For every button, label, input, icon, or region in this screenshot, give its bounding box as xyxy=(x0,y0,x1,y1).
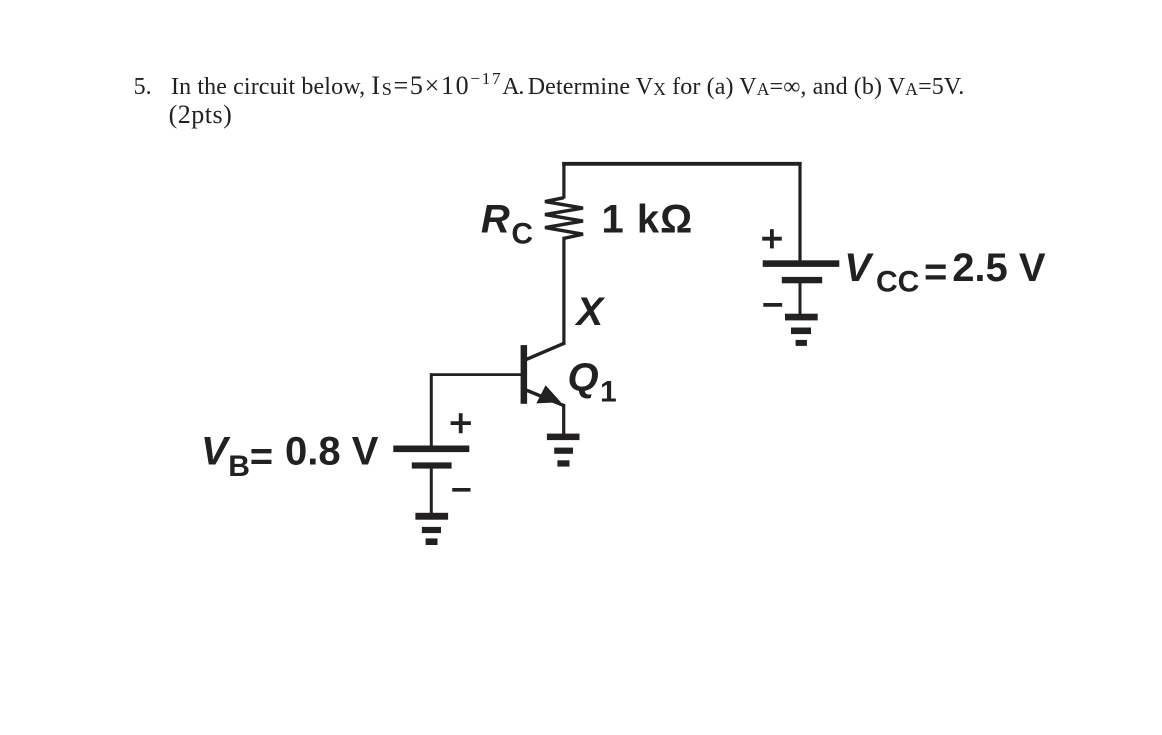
transistor Q1 emitter diagonal xyxy=(526,390,565,406)
svg-text:C: C xyxy=(511,217,533,250)
wire: Vcc top lead xyxy=(798,162,801,261)
battery VB long plate xyxy=(393,446,469,453)
svg-text:2.5 V: 2.5 V xyxy=(952,246,1046,290)
ground symbol below Vcc xyxy=(785,314,818,321)
transistor Q1 emitter arrow xyxy=(536,385,561,403)
svg-text:B: B xyxy=(228,450,250,483)
plus sign of Vcc battery xyxy=(762,237,782,241)
svg-text:1 kΩ: 1 kΩ xyxy=(602,198,694,242)
plus sign of VB battery xyxy=(451,421,471,425)
svg-text:R: R xyxy=(481,198,510,242)
wire: resistor bottom to collector node X xyxy=(562,237,565,344)
wire: VB battery bottom lead xyxy=(430,468,433,514)
wire: VB battery top lead xyxy=(430,373,433,446)
svg-text:X: X xyxy=(575,290,606,334)
wire: resistor top lead xyxy=(562,162,565,199)
transistor Q1 base bar xyxy=(521,345,528,404)
svg-text:V: V xyxy=(201,429,231,473)
wire: top rail xyxy=(562,162,801,166)
svg-text:1: 1 xyxy=(600,376,617,409)
minus sign of VB battery xyxy=(452,488,470,492)
ground symbol at emitter xyxy=(547,434,580,441)
wire: emitter lead down to ground xyxy=(562,404,565,435)
minus sign of Vcc battery xyxy=(763,303,782,307)
battery VB short plate xyxy=(412,462,452,468)
wire: Vcc battery bottom lead xyxy=(799,283,802,315)
svg-text:=: = xyxy=(250,434,273,478)
resistor RC zigzag xyxy=(545,198,583,239)
problem statement text xyxy=(134,73,1034,130)
ground symbol below VB xyxy=(415,513,448,520)
svg-text:V: V xyxy=(844,246,874,290)
transistor Q1 collector diagonal xyxy=(526,343,565,360)
svg-text:0.8 V: 0.8 V xyxy=(285,429,379,473)
svg-text:Q: Q xyxy=(568,355,599,399)
battery Vcc long plate xyxy=(763,260,840,267)
wire: base lead from VB xyxy=(431,373,522,376)
svg-text:CC: CC xyxy=(876,266,919,299)
svg-text:=: = xyxy=(924,250,947,294)
battery Vcc short plate xyxy=(782,277,822,283)
